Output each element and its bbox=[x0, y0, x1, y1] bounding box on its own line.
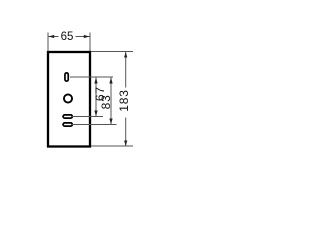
leader line from slot S2 bbox=[72, 116, 103, 118]
extension line top (183 dim) bbox=[91, 51, 133, 53]
dimension 183 arrow up bbox=[124, 52, 127, 58]
dimension 65 line right segment bbox=[76, 36, 90, 38]
dimension 83 arrow down bbox=[109, 119, 112, 125]
svg-text:65: 65 bbox=[61, 31, 74, 43]
dimension 183 arrow down bbox=[124, 141, 127, 147]
dimension 83 line bbox=[110, 78, 112, 125]
leader line from slot S3 bbox=[72, 124, 117, 126]
dimension 65 arrow left bbox=[49, 35, 55, 38]
extension line bottom (183 dim) bbox=[91, 145, 133, 147]
dimension 67 arrow up bbox=[94, 78, 97, 84]
extension line left (65 dim) bbox=[47, 33, 49, 52]
svg-text:183: 183 bbox=[117, 89, 131, 111]
hole H1 (circle) bbox=[64, 94, 72, 102]
extension line right (65 dim) bbox=[89, 33, 91, 52]
panel outline bbox=[48, 52, 90, 147]
dimension 67 arrow down bbox=[94, 111, 97, 117]
slot S2 (upper horizontal slot) bbox=[63, 115, 72, 118]
dimension 83 arrow up bbox=[109, 78, 112, 84]
dimension 65 arrow right bbox=[84, 35, 90, 38]
dimension 183 line lower segment bbox=[125, 118, 127, 147]
slot S1 (vertical keyhole slot) bbox=[65, 73, 68, 81]
leader line from slot S1 bbox=[70, 76, 113, 78]
dimension 67 line bbox=[95, 78, 97, 117]
dimension 65 line left segment bbox=[49, 36, 59, 38]
dimension 183 line upper segment bbox=[125, 52, 127, 88]
svg-text:83: 83 bbox=[99, 94, 113, 109]
slot S3 (lower horizontal slot) bbox=[63, 123, 72, 126]
